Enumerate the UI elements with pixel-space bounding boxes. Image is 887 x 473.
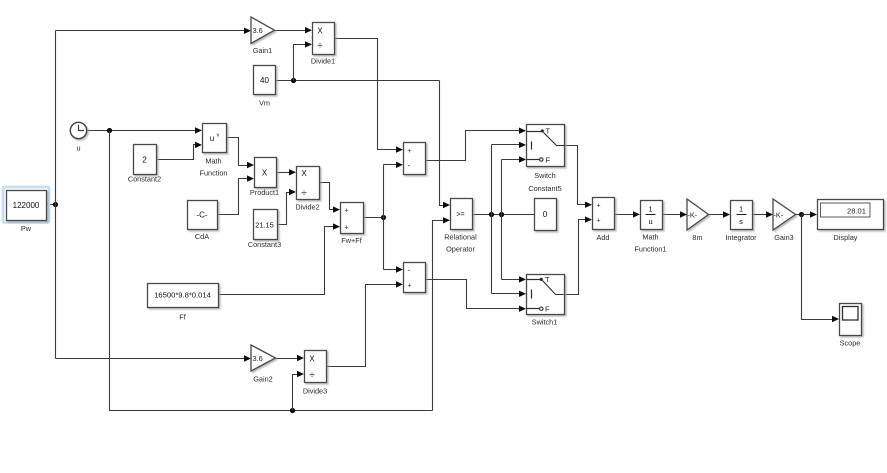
wire clock u output with junction: [88, 127, 203, 133]
sum Subtract2: [404, 263, 426, 293]
product Product1: [250, 158, 279, 197]
wire 8m to Integrator: [709, 211, 731, 217]
svg-text:v: v: [217, 133, 220, 139]
svg-text:Divide2: Divide2: [295, 202, 319, 211]
svg-text:>=: >=: [456, 212, 464, 219]
constant Constant3: [248, 210, 281, 249]
svg-text:Function: Function: [200, 169, 228, 178]
svg-text:Fw+Ff: Fw+Ff: [341, 236, 362, 245]
svg-text:21.15: 21.15: [255, 220, 274, 229]
wire Constant2 to Math Function: [157, 142, 203, 160]
svg-text:+: +: [597, 203, 601, 210]
svg-text:-K-: -K-: [774, 211, 784, 220]
svg-text:+: +: [408, 148, 412, 155]
svg-text:Math: Math: [205, 157, 221, 166]
svg-text:÷: ÷: [301, 188, 307, 199]
svg-text:Product1: Product1: [250, 188, 279, 197]
wire Switch1 to Add bottom input: [564, 216, 593, 294]
svg-text:16500*9.8*0.014: 16500*9.8*0.014: [154, 291, 211, 300]
svg-text:3.6: 3.6: [253, 354, 263, 363]
svg-text:40: 40: [260, 76, 269, 85]
wire Divide3 to Subtract2 plus: [327, 281, 404, 366]
svg-text:1: 1: [648, 205, 652, 214]
wire Divide1 to Subtract1 plus: [335, 39, 404, 153]
svg-text:CdA: CdA: [195, 232, 209, 241]
wire Gain2 to Divide3: [276, 355, 305, 361]
wire Fw+Ff output with junction: [364, 165, 387, 270]
svg-text:Constant3: Constant3: [248, 240, 281, 249]
clock u: [70, 122, 86, 152]
svg-text:X: X: [262, 168, 268, 177]
svg-text:Gain1: Gain1: [253, 46, 272, 55]
svg-text:F: F: [545, 305, 550, 314]
svg-text:T: T: [545, 275, 550, 284]
constant Vm: [254, 66, 276, 108]
constant CdA: [188, 201, 218, 241]
svg-text:Function1: Function1: [634, 244, 666, 253]
wire u branch to Relational Operator bottom input: [433, 217, 451, 410]
wire Constant3 to Divide2 divisor: [277, 189, 297, 225]
svg-text:8m: 8m: [692, 233, 702, 242]
svg-text:u: u: [76, 144, 80, 153]
wire Gain1 to Divide1: [275, 27, 313, 33]
svg-text:Add: Add: [597, 233, 610, 242]
svg-text:0: 0: [543, 210, 548, 219]
svg-text:+: +: [597, 218, 601, 225]
wire Subtract1 to Switch T input: [426, 128, 527, 161]
svg-text:u: u: [648, 217, 652, 226]
svg-text:Integrator: Integrator: [725, 233, 757, 242]
gain Gain2: [251, 345, 276, 383]
wire Pw output with junction: [47, 31, 59, 359]
svg-text:Constant5: Constant5: [528, 184, 561, 193]
wire Fw+Ff to Subtract1 minus: [384, 162, 404, 168]
gain Gain1: [251, 17, 275, 55]
svg-text:3.6: 3.6: [253, 26, 263, 35]
wire Add to Math Function1: [615, 211, 641, 217]
wire Math Function1 to 8m: [662, 211, 688, 217]
svg-text:s: s: [739, 217, 743, 226]
wire Vm to Relational Operator top input: [440, 81, 451, 209]
sum Fw+Ff: [341, 203, 364, 246]
svg-text:Gain3: Gain3: [774, 233, 793, 242]
wire Fw+Ff to Subtract2 minus: [384, 266, 404, 272]
svg-text:Relational: Relational: [444, 232, 477, 241]
wire Ff to Fw+Ff bottom: [219, 223, 341, 294]
svg-text:-: -: [408, 266, 411, 275]
svg-text:122000: 122000: [13, 201, 40, 210]
divide Divide1: [311, 23, 335, 66]
svg-text:Divide1: Divide1: [311, 57, 335, 66]
svg-text:+: +: [408, 283, 412, 290]
wire control branch to Switch and Switch1 middle inputs: [492, 142, 527, 297]
math function 1/u: [634, 201, 666, 254]
svg-text:u: u: [210, 134, 214, 143]
svg-text:Constant2: Constant2: [128, 174, 161, 183]
divide Divide3: [303, 351, 327, 396]
wire u down the left to bottom bus: [110, 131, 433, 414]
sum Add: [593, 198, 615, 243]
constant Constant2: [128, 145, 161, 184]
wire Relational Operator output bus with junctions: [472, 212, 535, 217]
svg-text:-K-: -K-: [688, 211, 698, 220]
wire Pw to Gain2: [56, 355, 252, 361]
wire Switch to Add top input: [565, 146, 593, 208]
switch Switch: [527, 125, 565, 180]
wire Gain3 output with junction: [796, 211, 818, 217]
wire Math Function to Product1 top: [226, 138, 255, 169]
switch Switch1: [527, 275, 565, 327]
svg-text:Switch1: Switch1: [532, 318, 558, 327]
svg-text:÷: ÷: [317, 40, 323, 51]
svg-text:÷: ÷: [309, 370, 315, 381]
wire Divide2 to Fw+Ff top: [320, 183, 341, 213]
wire CdA to Product1 bottom: [218, 175, 255, 214]
svg-text:1: 1: [739, 205, 743, 214]
svg-text:Math: Math: [642, 232, 658, 241]
svg-text:28.01: 28.01: [847, 207, 866, 216]
svg-text:Switch: Switch: [534, 171, 556, 180]
wire Vm output with junction: [276, 78, 440, 83]
svg-text:+: +: [345, 225, 349, 232]
svg-text:Divide3: Divide3: [303, 386, 327, 395]
svg-text:X: X: [317, 26, 323, 35]
wire Pw to Gain1: [56, 28, 252, 34]
svg-text:X: X: [301, 169, 307, 178]
math function u^v: [200, 124, 228, 178]
wire u branch to Divide3 divisor: [293, 371, 305, 411]
constant Pw (selected): [3, 187, 49, 233]
scope Scope: [840, 304, 862, 348]
gain 8m: [687, 199, 709, 242]
wire Vm branch to Divide1 divisor: [294, 41, 313, 80]
divide Divide2: [295, 167, 319, 212]
gain Gain3: [773, 199, 796, 242]
svg-text:+: +: [345, 208, 349, 215]
integrator 1/s: [725, 201, 757, 243]
svg-text:Gain2: Gain2: [253, 374, 272, 383]
svg-text:F: F: [546, 155, 551, 164]
sum Subtract1: [404, 143, 426, 175]
svg-text:Operator: Operator: [446, 244, 475, 253]
display Display: [818, 200, 884, 243]
svg-text:2: 2: [142, 155, 147, 164]
svg-text:-: -: [408, 161, 411, 170]
constant Ff: [148, 284, 219, 322]
wire Subtract2 to Switch1 F input: [426, 280, 527, 312]
wire branch to Switch F and Switch1 T inputs: [502, 156, 527, 282]
svg-text:Pw: Pw: [21, 224, 32, 233]
svg-text:Scope: Scope: [840, 339, 861, 348]
wire Product1 to Divide2: [276, 169, 297, 175]
constant Constant5: [528, 184, 561, 230]
wire Integrator to Gain3: [753, 211, 774, 217]
svg-text:Ff: Ff: [179, 313, 186, 322]
wire Gain3 to Scope: [802, 215, 840, 323]
svg-text:Vm: Vm: [259, 99, 270, 108]
svg-text:T: T: [546, 127, 551, 136]
svg-text:X: X: [309, 354, 315, 363]
relational operator >=: [444, 199, 477, 254]
svg-text:-C-: -C-: [196, 210, 207, 219]
svg-text:Display: Display: [834, 233, 858, 242]
